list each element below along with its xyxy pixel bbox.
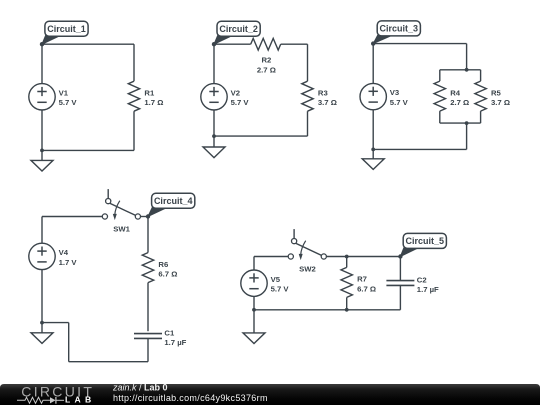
ground c1 <box>31 160 53 171</box>
wire c5 bottom rail <box>254 309 400 311</box>
wire c2 left lower <box>213 110 215 136</box>
wire c2 right upper <box>307 44 309 81</box>
svg-text:Circuit_2: Circuit_2 <box>219 24 258 34</box>
wire c1 right upper <box>133 44 135 81</box>
switch SW1 <box>102 189 140 220</box>
svg-text:V5: V5 <box>271 275 281 284</box>
wire c5 ground stub <box>253 310 255 333</box>
resistor R2 <box>251 38 281 50</box>
wire c3 R4 bottom lead <box>439 111 441 123</box>
svg-text:Circuit_1: Circuit_1 <box>47 24 86 34</box>
junction c3 bottom bar <box>465 121 469 125</box>
label R3 3.7 Ω <box>318 88 337 107</box>
svg-text:5.7 V: 5.7 V <box>390 98 409 107</box>
CircuitLab logo diode <box>50 397 56 403</box>
wire c4 C1 bottom lead <box>147 338 149 361</box>
wire c3 left upper <box>372 44 374 84</box>
wire c4 ground stub <box>41 323 43 333</box>
node Circuit_3 <box>371 41 375 45</box>
wire c3 left lower <box>372 110 374 149</box>
label R2 2.7 Ω <box>257 56 276 75</box>
wire c3 R5 bottom lead <box>480 111 482 123</box>
svg-text:SW1: SW1 <box>113 224 130 233</box>
node Circuit_2 <box>212 42 216 46</box>
junction c4 ground <box>40 321 44 325</box>
capacitor C1 <box>134 334 162 339</box>
wire c5 R7 top lead <box>346 257 348 268</box>
wire c4 bottom rail <box>69 361 148 363</box>
resistor R3 <box>302 81 313 111</box>
node Circuit_1 <box>40 42 44 46</box>
wire c3 parallel bottom bar <box>440 122 481 124</box>
label V2 5.7 V <box>231 88 250 107</box>
wire c4 left riser <box>68 323 70 362</box>
wire c1 ground stub <box>41 150 43 160</box>
wire c2 left upper <box>213 44 215 83</box>
wire c3 R5 top lead <box>480 70 482 81</box>
svg-text:R6: R6 <box>158 260 168 269</box>
ground c4 <box>31 333 53 344</box>
wire c3 bottom rail <box>373 148 466 150</box>
node Circuit_4 <box>146 214 150 218</box>
wire c4 R6 to C1 <box>147 283 149 332</box>
label V4 1.7 V <box>59 248 78 267</box>
svg-text:1.7 µF: 1.7 µF <box>417 285 439 294</box>
label R5 3.7 Ω <box>491 88 510 107</box>
label R4 2.7 Ω <box>450 88 469 107</box>
wire c4 left lower <box>41 269 43 322</box>
svg-text:R7: R7 <box>357 275 367 284</box>
wire c5 left upper <box>253 257 255 271</box>
wire c4 left upper <box>41 217 43 244</box>
ground c2 <box>203 147 225 158</box>
net label Circuit_1 tail <box>42 34 63 44</box>
svg-text:zain.k / Lab 0: zain.k / Lab 0 <box>112 382 168 392</box>
wire c2 ground stub <box>213 136 215 147</box>
svg-text:V2: V2 <box>231 88 240 97</box>
net label Circuit_3 box <box>377 21 420 36</box>
wire c1 right lower <box>133 111 135 150</box>
label V1 5.7 V <box>59 88 78 107</box>
wire c2 top right lead <box>281 43 308 45</box>
resistor R4 <box>434 81 445 111</box>
svg-text:V4: V4 <box>59 248 69 257</box>
net label Circuit_2 box <box>217 21 260 36</box>
voltage source V5 <box>241 270 267 296</box>
label C1 1.7 µF <box>164 328 186 347</box>
wire c5 C2 top lead <box>399 257 401 281</box>
svg-text:Circuit_3: Circuit_3 <box>380 24 419 34</box>
resistor R6 <box>142 253 153 283</box>
wire c5 C2 bottom lead <box>399 285 401 309</box>
svg-text:V1: V1 <box>59 88 69 97</box>
svg-text:1.7 µF: 1.7 µF <box>164 338 186 347</box>
ground c5 <box>243 333 265 344</box>
net label Circuit_4 box <box>152 193 195 208</box>
net label Circuit_5 tail <box>400 246 421 256</box>
svg-text:Circuit_5: Circuit_5 <box>406 236 445 246</box>
capacitor C2 <box>386 281 414 286</box>
wire c2 right lower <box>307 111 309 136</box>
label R7 6.7 Ω <box>357 275 376 294</box>
svg-text:V3: V3 <box>390 88 399 97</box>
net label Circuit_1 box <box>45 21 88 36</box>
label C2 1.7 µF <box>417 275 439 294</box>
junction c5 ground <box>252 308 256 312</box>
svg-text:2.7 Ω: 2.7 Ω <box>257 65 276 74</box>
CircuitLab logo wire and resistor <box>17 397 50 403</box>
junction c5 R7 bottom <box>345 308 349 312</box>
junction c3 top bar <box>465 68 469 72</box>
svg-text:R1: R1 <box>144 88 155 97</box>
wire c4 R6 top lead <box>147 217 149 253</box>
svg-text:5.7 V: 5.7 V <box>59 98 78 107</box>
net label Circuit_4 tail <box>148 206 170 216</box>
wire c3 ground stub <box>372 149 374 158</box>
wire c3 parallel top bar <box>440 69 481 71</box>
svg-text:6.7 Ω: 6.7 Ω <box>158 270 177 279</box>
svg-text:1.7 V: 1.7 V <box>59 258 78 267</box>
wire c2 bottom rail <box>214 135 308 137</box>
voltage source V2 <box>201 84 227 110</box>
junction c5 R7 top <box>345 255 349 259</box>
net label Circuit_5 box <box>403 233 446 248</box>
wire c1 left upper <box>41 44 43 83</box>
svg-text:1.7 Ω: 1.7 Ω <box>144 98 163 107</box>
svg-text:5.7 V: 5.7 V <box>231 98 250 107</box>
voltage source V1 <box>29 84 55 110</box>
net label Circuit_3 tail <box>373 34 395 44</box>
svg-text:LAB: LAB <box>65 395 96 405</box>
ground c3 <box>362 159 384 170</box>
svg-text:3.7 Ω: 3.7 Ω <box>491 98 510 107</box>
wire c4 SW1 to node <box>141 216 149 218</box>
svg-text:SW2: SW2 <box>299 264 316 273</box>
resistor R7 <box>341 267 352 297</box>
wire c1 bottom rail <box>42 149 134 151</box>
wire c1 left lower <box>41 110 43 150</box>
voltage source V3 <box>360 83 386 109</box>
label V3 5.7 V <box>390 88 409 107</box>
svg-text:5.7 V: 5.7 V <box>271 285 290 294</box>
svg-text:2.7 Ω: 2.7 Ω <box>450 98 469 107</box>
resistor R5 <box>475 81 486 111</box>
wire c4 to ground node <box>42 322 69 324</box>
wire c3 top rail <box>373 43 466 45</box>
svg-text:R2: R2 <box>261 56 271 65</box>
svg-text:C2: C2 <box>417 275 427 284</box>
svg-text:R3: R3 <box>318 88 328 97</box>
wire c2 top left lead <box>214 43 251 45</box>
wire c5 top rail <box>326 256 400 258</box>
svg-text:C1: C1 <box>164 328 175 337</box>
svg-text:R5: R5 <box>491 88 502 97</box>
voltage source V4 <box>29 243 55 269</box>
svg-text:6.7 Ω: 6.7 Ω <box>357 284 376 293</box>
net label Circuit_2 tail <box>214 34 235 44</box>
switch SW2 <box>288 229 326 260</box>
svg-text:Circuit_4: Circuit_4 <box>154 196 193 206</box>
node Circuit_5 <box>398 254 402 258</box>
label R1 1.7 Ω <box>144 88 163 107</box>
svg-text:3.7 Ω: 3.7 Ω <box>318 98 337 107</box>
wire c3 right drop <box>466 44 468 70</box>
wire c5 left lower <box>253 296 255 310</box>
svg-text:http://circuitlab.com/c64y9kc5: http://circuitlab.com/c64y9kc5376rm <box>113 393 268 403</box>
wire c1 top rail <box>42 43 134 45</box>
wire c4 V4 to SW1 <box>42 216 102 218</box>
label R6 6.7 Ω <box>158 260 177 279</box>
junction c3 bottom <box>371 148 375 152</box>
svg-text:R4: R4 <box>450 88 461 97</box>
label V5 5.7 V <box>271 275 290 294</box>
wire c5 V5 to SW2 <box>254 256 288 258</box>
wire c5 R7 bottom lead <box>346 297 348 309</box>
wire c3 right lower drop <box>466 123 468 149</box>
wire c3 R4 top lead <box>439 70 441 81</box>
resistor R1 <box>128 81 139 111</box>
junction c1 bottom <box>40 149 44 153</box>
junction c2 bottom <box>212 134 216 138</box>
